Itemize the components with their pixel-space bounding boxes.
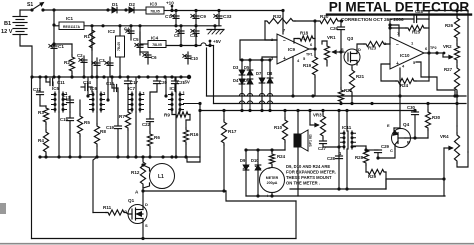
resistor R18: [294, 31, 315, 50]
bus line -5V: [207, 93, 467, 97]
svg-text:IC6: IC6: [90, 86, 98, 91]
svg-text:Q4: Q4: [403, 122, 410, 127]
svg-text:C21: C21: [177, 80, 186, 85]
svg-text:R6: R6: [154, 135, 160, 140]
capacitor C5: [133, 32, 143, 55]
svg-text:R11: R11: [103, 205, 112, 210]
svg-text:C8: C8: [174, 33, 180, 38]
wire loop down: [222, 189, 296, 201]
svg-text:R2: R2: [64, 60, 70, 65]
svg-text:IC5: IC5: [52, 86, 60, 91]
diode D1: [108, 2, 128, 13]
capacitor C28 meter: [327, 156, 343, 161]
meter M1 200uA: [260, 166, 285, 199]
IC9 pin4 supply: [292, 57, 294, 96]
potentiometer VR1: [322, 35, 340, 66]
resistor R21: [349, 68, 364, 104]
wire VR4 wiper link: [386, 177, 446, 189]
wire noninverting input: [262, 57, 277, 60]
svg-text:C2: C2: [77, 53, 83, 58]
node junction: [106, 8, 109, 11]
capacitor C21: [172, 77, 186, 92]
svg-text:R24: R24: [277, 154, 286, 159]
svg-text:D5: D5: [244, 65, 250, 70]
wire S1 to node: [43, 8, 108, 11]
resistor R5: [77, 100, 90, 157]
wire IC4 output +5V: [166, 39, 221, 47]
svg-text:R4: R4: [38, 138, 44, 143]
main +12 bus: [84, 24, 221, 27]
svg-text:C6: C6: [151, 55, 157, 60]
capacitor C35: [105, 57, 113, 77]
svg-text:R30: R30: [432, 115, 441, 120]
resistor R26: [445, 11, 460, 41]
capacitor C6: [140, 52, 157, 64]
wire IC10 pin7 supply: [388, 23, 399, 36]
svg-text:−: −: [283, 38, 286, 44]
svg-text:C11: C11: [57, 80, 65, 85]
IC9 pin7 supply: [281, 9, 284, 34]
svg-text:Q3: Q3: [347, 36, 354, 41]
IC11 left rail: [337, 111, 340, 191]
wire battery plus to S1: [20, 9, 32, 11]
wire battery minus to ground bus: [20, 35, 32, 78]
oscillator ground bus: [38, 155, 200, 158]
svg-text:C28: C28: [415, 9, 424, 14]
diode D7: [256, 60, 265, 111]
svg-text:SP1 8Ω: SP1 8Ω: [309, 134, 313, 147]
svg-text:C19: C19: [106, 125, 115, 130]
svg-text:D4: D4: [233, 78, 239, 83]
diode D6: [242, 78, 253, 111]
svg-text:C22: C22: [142, 122, 151, 127]
svg-text:VR3: VR3: [313, 113, 322, 118]
svg-text:C29: C29: [381, 144, 390, 149]
svg-text:REG1117A: REG1117A: [63, 25, 81, 29]
svg-text:L1: L1: [158, 174, 164, 180]
resistor R6: [147, 132, 160, 157]
svg-text:C14: C14: [83, 80, 92, 85]
svg-text:C17: C17: [130, 80, 139, 85]
right edge wire: [467, 11, 469, 153]
wire IC10 pin4: [399, 68, 401, 96]
svg-text:C28: C28: [327, 156, 336, 161]
diode D2: [124, 2, 146, 13]
meter bottom bus: [246, 194, 445, 197]
capacitor C12: [33, 77, 46, 106]
capacitor C27: [318, 138, 341, 151]
capacitor C29: [364, 144, 389, 160]
resistor R32: [265, 14, 317, 24]
capacitor C1: [49, 25, 65, 77]
IC9 output node: [306, 47, 317, 56]
svg-text:C9: C9: [200, 14, 206, 19]
svg-text:79L05: 79L05: [117, 42, 121, 51]
capacitor C26: [330, 21, 345, 52]
svg-text:D2: D2: [129, 2, 135, 7]
wire Q3 gate: [351, 65, 353, 68]
potentiometer VR4: [440, 126, 468, 167]
bottom ground bus: [32, 237, 297, 240]
diode D8: [267, 60, 273, 111]
resistor R9: [164, 110, 190, 120]
svg-text:D3: D3: [233, 65, 239, 70]
resistor R19: [303, 49, 318, 96]
svg-text:S1: S1: [27, 2, 33, 8]
wire meter top: [244, 148, 285, 151]
wire IC11 to R28: [352, 146, 366, 148]
svg-text:FOR EXPANDED METER.: FOR EXPANDED METER.: [286, 170, 336, 175]
IC11 right rail: [345, 111, 348, 191]
coil L1: [141, 163, 174, 188]
svg-text:THESE PARTS MOUNT: THESE PARTS MOUNT: [286, 175, 332, 180]
svg-text:C5: C5: [133, 37, 139, 42]
capacitor C4: [124, 24, 134, 40]
svg-text:R12: R12: [131, 170, 140, 175]
svg-text:C26: C26: [330, 26, 339, 31]
svg-text:C13: C13: [62, 95, 71, 100]
wire A node to loop: [143, 190, 226, 192]
wire fb junction down: [314, 21, 316, 38]
scan artifact bottom: [0, 243, 474, 245]
resistor R20: [315, 14, 343, 24]
IC8: [169, 77, 201, 157]
resistor R28: [355, 148, 369, 172]
svg-text:IC1: IC1: [66, 16, 74, 21]
op-amp IC9: [271, 28, 313, 65]
IC11: [339, 125, 356, 156]
svg-text:VR2: VR2: [443, 44, 452, 49]
svg-text:C15: C15: [60, 117, 69, 122]
svg-text:IC9: IC9: [288, 47, 296, 52]
svg-text:C16: C16: [106, 81, 115, 86]
capacitor C31: [190, 26, 199, 46]
svg-text:PI METAL DETECTOR: PI METAL DETECTOR: [329, 0, 470, 15]
svg-text:12 V: 12 V: [1, 29, 13, 35]
capacitor C8: [174, 24, 184, 45]
node A: [135, 189, 145, 194]
transistor Q3: [339, 36, 361, 65]
diode D4: [233, 78, 245, 96]
capacitor C2: [77, 53, 87, 77]
wire Q4 emitter: [394, 96, 400, 128]
svg-text:−: −: [396, 42, 399, 48]
svg-text:VR1: VR1: [327, 35, 336, 40]
svg-text:R3: R3: [38, 110, 44, 115]
svg-text:+5V: +5V: [213, 39, 221, 44]
svg-text:C10: C10: [190, 56, 199, 61]
IC7: [128, 77, 146, 157]
capacitor C28: [390, 9, 429, 23]
svg-text:R16: R16: [190, 132, 199, 137]
transistor Q4: [387, 122, 411, 153]
resistor R1: [84, 26, 95, 77]
regulator IC2 79L05 vertical: [108, 26, 125, 77]
wire IC10 pin5 path: [416, 62, 455, 96]
rail -5V down: [206, 48, 208, 96]
svg-text:IC3: IC3: [150, 2, 158, 7]
battery B1: [1, 10, 27, 35]
wire osc block c: [164, 77, 167, 98]
resistor R2: [52, 42, 74, 77]
resistor R24 hysteresis: [381, 64, 429, 88]
IC5: [52, 77, 69, 157]
wire inverting input: [240, 40, 277, 60]
svg-text:C20: C20: [159, 80, 168, 85]
svg-text:78L05: 78L05: [150, 10, 160, 14]
potentiometer VR2: [437, 40, 460, 62]
capacitor C33: [214, 9, 232, 26]
svg-text:C1: C1: [58, 44, 64, 49]
svg-text:METER: METER: [266, 176, 279, 180]
resistor R4: [38, 130, 49, 157]
switch S1: [27, 2, 45, 12]
speaker SP1: [294, 111, 313, 197]
diode D9: [240, 150, 249, 196]
resistor R10: [274, 111, 288, 151]
resistor R7: [119, 92, 131, 157]
+10 supply rail: [166, 1, 283, 13]
IC6: [90, 77, 107, 124]
resistor R30: [425, 104, 440, 139]
svg-text:78L05: 78L05: [152, 43, 162, 47]
wire osc bus to line C: [187, 104, 202, 163]
svg-text:Q1: Q1: [128, 198, 135, 203]
capacitor C17: [125, 77, 139, 92]
resistor R12: [131, 157, 146, 191]
regulator IC4 78L05: [140, 26, 166, 52]
svg-text:ON THE METER .: ON THE METER .: [286, 181, 320, 186]
svg-text:TP2: TP2: [430, 46, 437, 50]
resistor R16: [183, 120, 198, 157]
svg-text:R17: R17: [228, 129, 237, 134]
svg-text:D: D: [358, 47, 361, 52]
wire R27 bottom: [456, 92, 458, 126]
capacitor C30: [407, 105, 419, 138]
regulator IC3 78L05: [146, 2, 172, 15]
regulator IC1 REG1117A: [54, 16, 84, 30]
capacitor C10: [183, 52, 199, 64]
resistor R8: [94, 124, 106, 157]
ground bus: [30, 75, 191, 85]
svg-text:C3: C3: [99, 58, 105, 63]
capacitor C11: [46, 77, 65, 86]
svg-text:VR4: VR4: [440, 134, 449, 139]
potentiometer VR3: [310, 111, 326, 139]
svg-text:IC4: IC4: [151, 36, 159, 41]
svg-text:R27: R27: [444, 67, 453, 72]
capacitor C19: [106, 92, 122, 157]
svg-text:D9: D9: [240, 158, 246, 163]
diode D10: [251, 150, 261, 196]
capacitor C3: [92, 58, 105, 77]
svg-text:R5: R5: [84, 120, 90, 125]
svg-text:D9, D10 AND R24 ARE: D9, D10 AND R24 ARE: [286, 164, 330, 169]
svg-text:R1: R1: [84, 34, 90, 39]
svg-text:IC10: IC10: [400, 53, 410, 58]
capacitor C14: [81, 80, 92, 92]
ground: [207, 24, 224, 34]
svg-text:+: +: [283, 56, 286, 62]
capacitor C9: [191, 9, 207, 26]
scan artifact left: [0, 203, 6, 214]
IC10 output node: [424, 46, 445, 55]
wire IC10 fb left: [386, 19, 392, 44]
svg-text:IC2: IC2: [108, 29, 116, 34]
svg-text:IC7: IC7: [128, 86, 136, 91]
svg-text:R21: R21: [356, 74, 365, 79]
transistor Q1 MOSFET: [124, 191, 148, 239]
wire VR4 wiper down: [443, 148, 445, 196]
wire diode top: [240, 58, 272, 61]
bus line signal: [198, 102, 415, 112]
wire Q4 base: [405, 136, 428, 139]
svg-text:200µA: 200µA: [267, 181, 278, 185]
svg-text:B1: B1: [4, 21, 11, 27]
svg-text:S: S: [145, 223, 148, 228]
resistor R3: [38, 106, 49, 130]
svg-text:+: +: [396, 61, 399, 67]
svg-text:C31: C31: [190, 33, 199, 38]
feedback node wire: [265, 21, 277, 40]
rail +5V down: [213, 46, 215, 104]
wire top right corner: [429, 9, 468, 19]
svg-text:R28: R28: [355, 155, 364, 160]
title PI METAL DETECTOR: [327, 0, 471, 15]
left ground return wire: [31, 77, 33, 239]
signal line to meter bus: [290, 188, 386, 190]
svg-text:R10: R10: [274, 125, 283, 130]
svg-text:D6: D6: [244, 78, 250, 83]
resistor R23: [364, 41, 390, 50]
meter note text: [286, 164, 336, 186]
resistor R22: [338, 88, 352, 104]
svg-text:R7: R7: [119, 114, 125, 119]
wire Q3 drain: [357, 44, 364, 49]
resistor R17: [221, 109, 236, 191]
capacitor C7: [165, 9, 179, 26]
diode D3 D5 labels: [233, 65, 250, 70]
svg-text:R19: R19: [303, 63, 312, 68]
svg-text:R23: R23: [368, 46, 377, 51]
capacitor C15: [60, 112, 74, 157]
svg-text:R24: R24: [400, 83, 409, 88]
wire Q3 source node: [340, 52, 342, 88]
capacitor C16: [106, 77, 118, 92]
svg-text:C7: C7: [165, 14, 171, 19]
capacitor C22: [142, 112, 154, 132]
diode D5: [247, 60, 253, 79]
op-amp IC10: [384, 31, 428, 69]
wire gate feed: [93, 157, 97, 213]
svg-text:R32: R32: [273, 14, 282, 19]
wire fb right rail: [427, 19, 430, 81]
svg-text:C33: C33: [223, 14, 232, 19]
svg-text:C12: C12: [33, 87, 42, 92]
svg-text:R29: R29: [368, 174, 377, 179]
capacitor C20: [150, 77, 168, 112]
resistor R25: [390, 25, 429, 34]
svg-text:+10: +10: [166, 1, 174, 6]
svg-text:B: B: [407, 140, 410, 145]
svg-text:D: D: [145, 202, 148, 207]
wire osc block b: [106, 77, 109, 102]
wire Q4 collector: [378, 149, 395, 158]
svg-text:TP1: TP1: [306, 53, 313, 57]
svg-text:C: C: [390, 148, 393, 153]
wire osc block a: [86, 77, 89, 98]
svg-text:D1: D1: [112, 2, 118, 7]
resistor R27: [444, 62, 460, 96]
resistor R29: [366, 169, 386, 189]
svg-text:R18: R18: [300, 31, 309, 36]
svg-text:E: E: [387, 123, 390, 128]
capacitor C13: [62, 95, 74, 112]
diode D3: [239, 60, 245, 79]
bus line +5V: [214, 101, 467, 105]
svg-text:R9: R9: [164, 113, 170, 118]
wire input node down to IC1: [52, 10, 55, 27]
svg-text:R26: R26: [445, 23, 454, 28]
wire loop right up: [295, 201, 297, 239]
resistor R11: [93, 205, 132, 215]
resistor R24 meter: [269, 150, 285, 166]
svg-text:D7: D7: [256, 71, 262, 76]
subtitle CORRECTION OCT 26-2006: [341, 17, 404, 22]
